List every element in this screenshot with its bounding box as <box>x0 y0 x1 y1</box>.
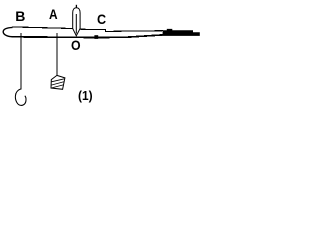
hanger cord below B <box>20 33 22 90</box>
beam rounded left cap <box>3 27 12 36</box>
label C <box>97 12 106 26</box>
weight block outline <box>51 75 65 89</box>
label (1) <box>78 89 93 102</box>
hook <box>15 89 26 106</box>
marker square on beam at C <box>94 35 98 39</box>
hanger cord below A <box>56 33 58 76</box>
black tip of beam <box>163 29 200 36</box>
weight hatch lines <box>51 79 64 88</box>
cord inside loop <box>75 14 77 34</box>
label O <box>71 38 81 52</box>
label B <box>15 9 25 23</box>
beam top edge step at x65 <box>66 27 73 29</box>
lifting loop (ellipse) at O <box>73 8 80 36</box>
label A <box>49 7 58 21</box>
beam top edge left segment <box>12 27 66 28</box>
cord tick above loop <box>75 5 77 8</box>
beam top edge right of loop <box>80 29 163 31</box>
beam bottom edge <box>12 35 163 38</box>
